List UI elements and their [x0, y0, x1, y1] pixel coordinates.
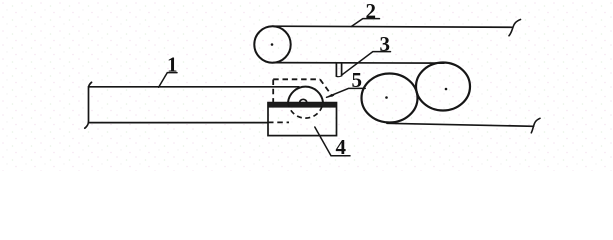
- svg-text:1: 1: [167, 53, 178, 77]
- svg-text:3: 3: [380, 32, 391, 56]
- svg-text:4: 4: [336, 135, 347, 159]
- svg-text:5: 5: [352, 68, 363, 92]
- svg-text:2: 2: [366, 0, 377, 23]
